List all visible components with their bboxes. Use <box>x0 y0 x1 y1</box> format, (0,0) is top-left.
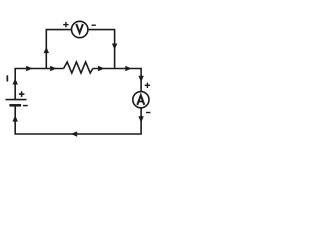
current label I <box>7 75 9 81</box>
arrow up voltmeter branch left <box>44 47 49 53</box>
arrow right after junction B <box>125 66 131 71</box>
arrow down below ammeter <box>138 116 143 122</box>
voltmeter - label <box>92 24 96 26</box>
resistor R <box>64 62 93 73</box>
arrow down voltmeter branch right <box>112 44 117 50</box>
battery - label <box>23 105 28 107</box>
arrow down above ammeter <box>138 76 143 82</box>
arrow up below battery <box>13 115 18 121</box>
voltmeter circle <box>72 21 88 37</box>
wire ammeter bottom, bottom side, back up to battery <box>15 105 141 134</box>
ammeter circle <box>133 92 149 108</box>
arrow right after resistor <box>98 66 104 71</box>
battery negative plate (short) <box>9 104 21 107</box>
wire battery top up and right to junction A <box>15 69 63 100</box>
wire voltmeter branch right <box>88 30 115 69</box>
ammeter letter A <box>137 95 144 105</box>
battery positive plate (long) <box>6 99 27 101</box>
wire resistor to top-right corner, down to ammeter <box>93 69 141 92</box>
current arrow up on battery top wire <box>13 78 18 84</box>
voltmeter + label <box>63 22 68 27</box>
ammeter + label <box>145 83 150 88</box>
arrow left on bottom wire <box>71 131 77 136</box>
arrow right before junction A <box>26 66 32 71</box>
wire voltmeter branch left <box>46 30 71 69</box>
voltmeter letter V <box>76 24 83 33</box>
battery + label <box>19 91 25 97</box>
arrow right after junction A <box>50 66 56 71</box>
ammeter - label <box>146 112 150 114</box>
